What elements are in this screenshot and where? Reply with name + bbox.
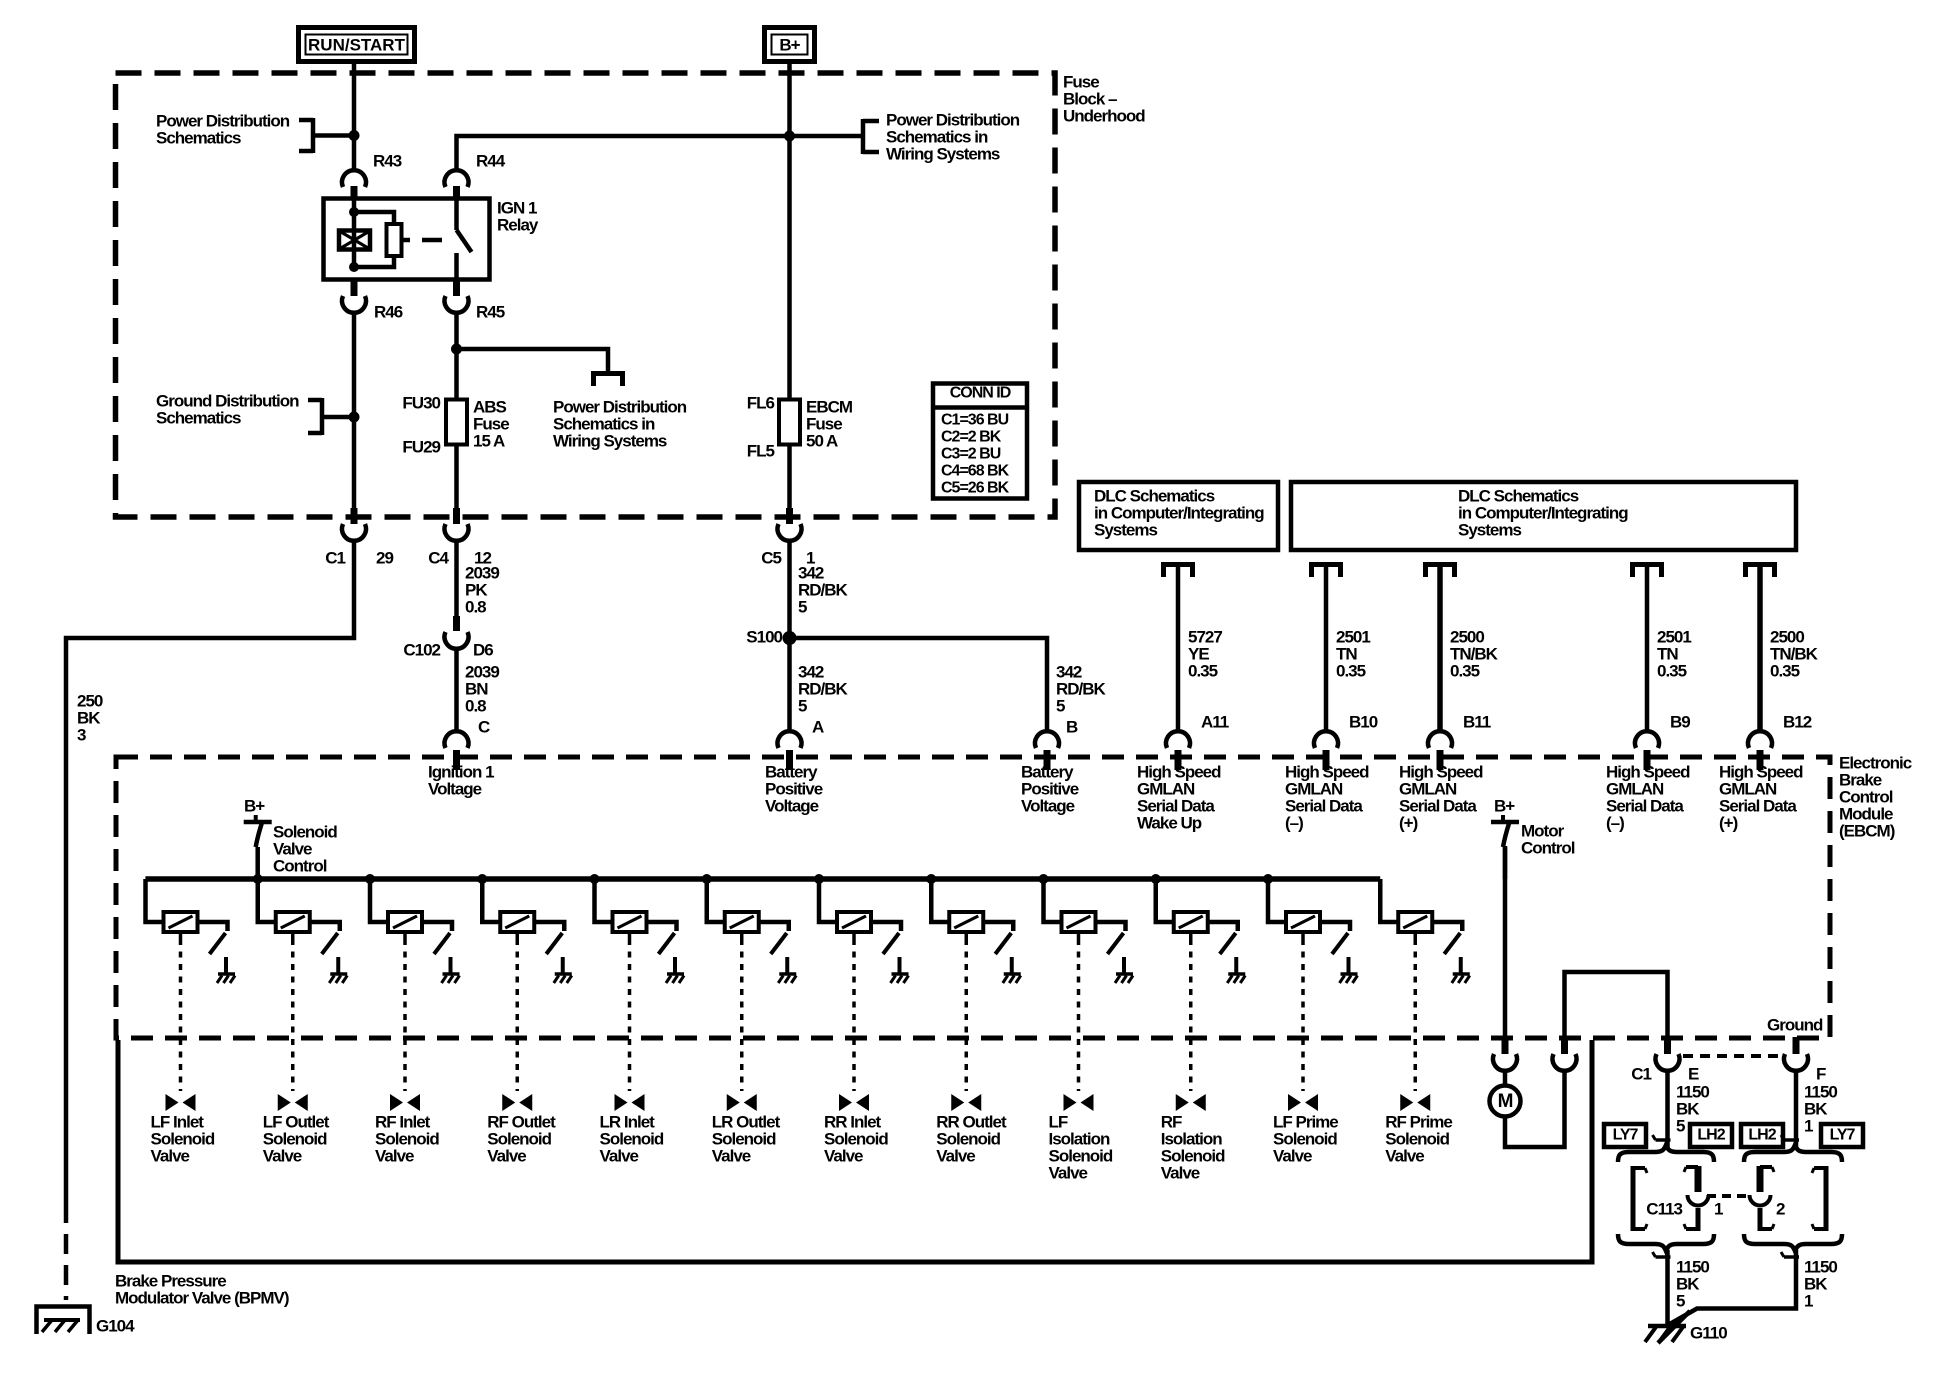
motor M — [1490, 1086, 1521, 1117]
node relay coil top tap — [349, 207, 359, 217]
wire coil to valve RF Outlet (dashed) — [516, 932, 520, 1091]
connector EBCM C1 pin E — [1631, 1037, 1699, 1083]
node bus junction LF Outlet — [253, 874, 263, 884]
wire switch to ground LF Isolation — [1122, 957, 1126, 973]
node junction R45 wire to goto bracket — [451, 344, 462, 355]
valve RR Inlet Solenoid Valve (symbol) — [839, 1094, 869, 1111]
terminal B+ (battery feed) — [765, 28, 815, 62]
wire motor M return loop — [1505, 1072, 1565, 1147]
svg-text:1: 1 — [1804, 1291, 1813, 1310]
connector R43 — [342, 151, 402, 200]
svg-text:0.35: 0.35 — [1770, 661, 1800, 680]
wire DLC to EBCM pin B10 — [1324, 566, 1329, 731]
wire DLC to EBCM pin B9 — [1645, 566, 1650, 731]
svg-text:3: 3 — [77, 725, 86, 744]
svg-text:0.8: 0.8 — [465, 597, 486, 616]
wire coil to switch LF Inlet — [198, 922, 228, 931]
svg-text:FU29: FU29 — [402, 437, 440, 456]
label High Speed GMLAN Serial Data (+) — [1719, 762, 1803, 832]
box engine code LH2 — [1690, 1124, 1732, 1147]
connector C113 pin 1 (pins) — [1633, 1166, 1709, 1231]
svg-text:RUN/START: RUN/START — [308, 35, 406, 54]
node bus junction LR Inlet — [590, 874, 600, 884]
wire bus drop to LR Inlet coil — [595, 879, 613, 922]
tick on G110 wire 1 — [1653, 1252, 1671, 1257]
pointer Power Distribution Schematics (bracket) — [299, 118, 354, 153]
connector EBCM ground pin F — [1784, 1037, 1826, 1083]
node bus junction RF Outlet — [477, 874, 487, 884]
node bus junction LF Prime — [1263, 874, 1273, 884]
ground RF Isolation driver — [1227, 974, 1245, 983]
wire B+ motor to connector — [1503, 846, 1508, 1038]
svg-text:(–): (–) — [1606, 813, 1624, 832]
wire FU29 to connector C4 — [454, 444, 459, 508]
wire FL5 to connector C5 — [787, 444, 792, 508]
wire C1 pin29 to left margin — [66, 542, 354, 1203]
wire RUN/START down to relay R43 — [352, 64, 357, 170]
svg-text:R44: R44 — [476, 151, 506, 170]
connector R46 — [342, 280, 403, 321]
svg-text:Valve: Valve — [487, 1146, 526, 1165]
wire coil to valve RR Inlet (dashed) — [852, 932, 856, 1091]
svg-text:M: M — [1498, 1091, 1513, 1112]
svg-text:5: 5 — [1676, 1116, 1685, 1135]
relay coil (box with X) — [339, 231, 370, 250]
wire coil to valve LF Outlet (dashed) — [291, 932, 295, 1091]
solenoid coil LR Outlet Solenoid Valve — [725, 912, 759, 932]
wire DLC to EBCM pin B11 — [1437, 566, 1443, 731]
box engine code LY7 — [1604, 1124, 1646, 1147]
battery feed B+ motor control — [1491, 796, 1575, 879]
wire coil to switch LF Isolation — [1096, 922, 1126, 931]
solenoid coil RF Outlet Solenoid Valve — [500, 912, 534, 932]
svg-text:1: 1 — [1804, 1116, 1813, 1135]
label Power Distribution Schematics in Wiring Systems — [553, 397, 687, 450]
svg-text:29: 29 — [376, 548, 393, 567]
wire coil to switch RF Prime — [1432, 922, 1462, 931]
wire switch to ground RR Outlet — [1010, 957, 1014, 973]
svg-text:5: 5 — [798, 597, 807, 616]
label LR Inlet Solenoid Valve — [600, 1112, 664, 1165]
svg-text:C3=2 BU: C3=2 BU — [941, 446, 1001, 463]
svg-text:Valve: Valve — [600, 1146, 639, 1165]
svg-text:D6: D6 — [473, 640, 493, 659]
wire bus drop to LF Isolation coil — [1044, 879, 1062, 922]
box DLC Schematics 2 — [1291, 482, 1796, 550]
svg-text:Valve: Valve — [1161, 1163, 1200, 1182]
svg-text:B: B — [1066, 717, 1078, 736]
brace top C113 group 1 — [1618, 1145, 1714, 1162]
ground G110 — [1645, 1311, 1727, 1343]
wire bus drop to RR Inlet coil — [819, 879, 837, 922]
label RR Outlet Solenoid Valve — [936, 1112, 1007, 1165]
label RF Outlet Solenoid Valve — [487, 1112, 556, 1165]
wire switch to ground RF Prime — [1459, 957, 1463, 973]
label LR Outlet Solenoid Valve — [712, 1112, 781, 1165]
label High Speed GMLAN Serial Data (+) — [1399, 762, 1483, 832]
connector EBCM pin B10 — [1314, 712, 1378, 770]
switch LF Outlet driver — [322, 933, 338, 954]
label C113 — [1646, 1199, 1682, 1218]
wire S100 to EBCM pin B — [790, 638, 1048, 731]
svg-text:F: F — [1816, 1064, 1826, 1083]
connector EBCM pin B — [1035, 717, 1078, 770]
wire bus drop to LF Outlet coil — [258, 879, 276, 922]
goto bracket DLC to pin B10 — [1309, 564, 1343, 577]
switch RF Isolation driver — [1220, 933, 1236, 954]
svg-text:Wiring Systems: Wiring Systems — [553, 431, 667, 450]
wire coil to valve LF Prime (dashed) — [1301, 932, 1305, 1091]
wire switch to ground LF Inlet — [224, 957, 228, 973]
wire R45 to fuse FU30 — [454, 313, 459, 400]
wire bus drop to LF Inlet coil — [146, 879, 164, 922]
node bus junction RR Outlet — [926, 874, 936, 884]
connector EBCM pin A11 — [1166, 712, 1229, 770]
svg-text:C1: C1 — [1631, 1064, 1651, 1083]
switch RF Inlet driver — [434, 933, 450, 954]
label High Speed GMLAN Serial Data (–) — [1606, 762, 1690, 832]
label Electronic Brake Control Module (EBCM) — [1839, 753, 1912, 840]
wire label 5727 YE 0.35 — [1188, 627, 1222, 680]
wire label 2039 PK 0.8 — [465, 563, 499, 616]
svg-text:Schematics: Schematics — [156, 128, 241, 147]
wire label 2500 TN/BK 0.35 — [1770, 627, 1819, 680]
wire switch to ground LF Prime — [1347, 957, 1351, 973]
label Fuse Block Underhood — [1063, 72, 1145, 125]
connector C4 pin 12 — [428, 508, 491, 567]
svg-text:(+): (+) — [1719, 813, 1738, 832]
svg-text:E: E — [1688, 1064, 1699, 1083]
svg-text:5: 5 — [1056, 696, 1065, 715]
wire bus drop to RF Prime coil — [1380, 879, 1398, 922]
node junction R46 wire to ground pointer — [349, 412, 360, 423]
valve RF Outlet Solenoid Valve (symbol) — [502, 1094, 532, 1111]
relay switch — [457, 198, 472, 280]
wire label 1150 BK 5 (G110) — [1676, 1257, 1709, 1310]
wire C113 group1 to G110 — [1665, 1250, 1670, 1326]
switch RR Outlet driver — [995, 933, 1011, 954]
wire coil to switch RR Inlet — [871, 922, 901, 931]
svg-text:(+): (+) — [1399, 813, 1418, 832]
box engine code LH2 — [1741, 1124, 1783, 1147]
svg-text:50 A: 50 A — [806, 431, 838, 450]
svg-text:0.35: 0.35 — [1450, 661, 1480, 680]
svg-text:LH2: LH2 — [1748, 1127, 1776, 1144]
wire bus drop to RF Inlet coil — [370, 879, 388, 922]
svg-text:Relay: Relay — [497, 215, 539, 234]
battery feed B+ solenoid valve control — [244, 796, 338, 879]
wire switch to ground LR Inlet — [673, 957, 677, 973]
tick on G110 wire 2 — [1781, 1252, 1799, 1257]
ground LF Inlet driver — [217, 974, 235, 983]
switch LF Isolation driver — [1108, 933, 1124, 954]
label LF Isolation Solenoid Valve — [1049, 1112, 1113, 1182]
svg-text:Valve: Valve — [375, 1146, 414, 1165]
pointer Power Distribution Schematics in Wiring Systems (text) — [886, 110, 1020, 163]
wire switch to ground RR Inlet — [898, 957, 902, 973]
label RF Inlet Solenoid Valve — [375, 1112, 439, 1165]
solenoid coil LF Outlet Solenoid Valve — [276, 912, 310, 932]
ground RR Inlet driver — [891, 974, 909, 983]
wire coil to switch RF Outlet — [534, 922, 564, 931]
valve RR Outlet Solenoid Valve (symbol) — [951, 1094, 981, 1111]
svg-text:Valve: Valve — [936, 1146, 975, 1165]
goto bracket DLC to pin B11 — [1423, 564, 1457, 577]
svg-text:B12: B12 — [1783, 712, 1812, 731]
wire coil to switch RR Outlet — [983, 922, 1013, 931]
wire switch to ground RF Inlet — [449, 957, 453, 973]
box DLC Schematics 1 — [1079, 482, 1278, 550]
wire R46 to connector C1 — [352, 313, 357, 508]
label Brake Pressure Modulator Valve (BPMV) — [115, 1271, 289, 1307]
svg-text:C5=26 BK: C5=26 BK — [941, 480, 1010, 497]
solenoid coil RF Isolation Solenoid Valve — [1174, 912, 1208, 932]
pointer Power Distribution Schematics in Wiring Systems (bracket) — [863, 119, 879, 154]
box engine code LY7 — [1821, 1124, 1863, 1147]
valve LF Isolation Solenoid Valve (symbol) — [1064, 1094, 1094, 1111]
connector EBCM pin B9 — [1635, 712, 1690, 770]
wire C4 to connector C102 — [454, 542, 459, 616]
wire coil to switch LR Outlet — [759, 922, 789, 931]
wire label 1150 BK 1 (G110) — [1804, 1257, 1837, 1310]
wire bus drop to LR Outlet coil — [707, 879, 725, 922]
switch LR Inlet driver — [659, 933, 675, 954]
wire label 2501 TN 0.35 — [1657, 627, 1691, 680]
svg-text:0.8: 0.8 — [465, 696, 486, 715]
pointer Power Distribution Schematics (text) — [156, 111, 290, 147]
svg-text:Wiring Systems: Wiring Systems — [886, 144, 1000, 163]
svg-text:Valve: Valve — [1385, 1146, 1424, 1165]
wire label 1150 BK 1 (pin F) — [1804, 1082, 1837, 1135]
BPMV box (solid) — [118, 1040, 1592, 1262]
relay actuator dashes — [402, 238, 442, 243]
wire label 2500 TN/BK 0.35 — [1450, 627, 1499, 680]
valve RF Prime Solenoid Valve (symbol) — [1400, 1094, 1430, 1111]
svg-text:Schematics: Schematics — [156, 408, 241, 427]
connector motor return at EBCM/BPMV boundary — [1553, 1037, 1577, 1071]
svg-text:Ground: Ground — [1767, 1015, 1823, 1034]
svg-text:5: 5 — [798, 696, 807, 715]
solenoid coil RR Inlet Solenoid Valve — [837, 912, 871, 932]
wire relay R44 up and right to pointer — [457, 136, 864, 170]
goto bracket DLC to pin A11 — [1161, 564, 1195, 577]
splice S100 — [746, 627, 796, 646]
svg-text:C: C — [478, 717, 490, 736]
solenoid coil RR Outlet Solenoid Valve — [949, 912, 983, 932]
svg-text:Systems: Systems — [1458, 520, 1521, 539]
ground G104 — [37, 1307, 136, 1336]
connector motor supply at EBCM/BPMV boundary — [1493, 1037, 1517, 1071]
ground LR Outlet driver — [778, 974, 796, 983]
label pin 1 — [1714, 1199, 1723, 1218]
svg-text:Voltage: Voltage — [765, 796, 819, 815]
connector EBCM pin B11 — [1428, 712, 1491, 770]
wire bus drop to RF Outlet coil — [482, 879, 500, 922]
goto bracket Power Distribution Schematics in Wiring Systems — [591, 373, 625, 386]
svg-text:C113: C113 — [1646, 1199, 1682, 1218]
solenoid coil RF Prime Solenoid Valve — [1398, 912, 1432, 932]
wire coil to valve RF Prime (dashed) — [1414, 932, 1418, 1091]
label RF Isolation Solenoid Valve — [1161, 1112, 1225, 1182]
wire label 2039 BN 0.8 — [465, 662, 499, 715]
svg-text:15 A: 15 A — [473, 431, 505, 450]
ground RF Prime driver — [1452, 974, 1470, 983]
wire coil to switch LR Inlet — [647, 922, 677, 931]
valve RF Isolation Solenoid Valve (symbol) — [1176, 1094, 1206, 1111]
label Ignition 1 Voltage — [428, 762, 494, 798]
svg-text:B+: B+ — [779, 35, 800, 54]
wire label 250 BK 3 — [77, 691, 103, 744]
svg-text:LY7: LY7 — [1613, 1127, 1639, 1144]
wire coil to valve LF Inlet (dashed) — [179, 932, 183, 1091]
valve LF Prime Solenoid Valve (symbol) — [1288, 1094, 1318, 1111]
node bus junction RR Inlet — [814, 874, 824, 884]
wire coil to valve LR Outlet (dashed) — [740, 932, 744, 1091]
node bus junction LR Outlet — [702, 874, 712, 884]
wire switch to ground RF Isolation — [1234, 957, 1238, 973]
wire pin F down to C113 — [1794, 1072, 1799, 1149]
svg-text:0.35: 0.35 — [1657, 661, 1687, 680]
svg-text:S100: S100 — [746, 627, 782, 646]
wire dashed drop to G104 — [64, 1203, 69, 1300]
svg-text:Valve: Valve — [151, 1146, 190, 1165]
svg-text:2: 2 — [1776, 1199, 1785, 1218]
connector EBCM pin B12 — [1748, 712, 1812, 770]
wire junction to goto bracket — [457, 349, 609, 371]
svg-text:Systems: Systems — [1094, 520, 1157, 539]
relay coil wire — [352, 198, 357, 267]
brace bottom C113 group 1 — [1618, 1234, 1714, 1251]
wire switch to ground LF Outlet — [336, 957, 340, 973]
svg-text:C102: C102 — [403, 640, 440, 659]
brace bottom C113 group 2 — [1744, 1234, 1842, 1251]
node bus junction LF Isolation — [1039, 874, 1049, 884]
wire label 342 RD/BK 5 (above S100) — [798, 563, 849, 616]
wire S100 to EBCM pin A — [787, 638, 792, 731]
valve LF Inlet Solenoid Valve (symbol) — [166, 1094, 196, 1111]
svg-text:C1=36 BU: C1=36 BU — [941, 412, 1009, 429]
svg-text:Valve: Valve — [263, 1146, 302, 1165]
label RF Prime Solenoid Valve — [1385, 1112, 1452, 1165]
switch LF Prime driver — [1332, 933, 1348, 954]
ground RF Outlet driver — [554, 974, 572, 983]
label High Speed GMLAN Serial Data (–) — [1285, 762, 1369, 832]
svg-text:Wake Up: Wake Up — [1137, 813, 1202, 832]
svg-text:C1: C1 — [325, 548, 345, 567]
wire coil to valve RF Inlet (dashed) — [403, 932, 407, 1091]
svg-text:Voltage: Voltage — [428, 779, 482, 798]
svg-text:FL5: FL5 — [747, 441, 775, 460]
relay suppression resistor loop — [354, 212, 402, 267]
svg-text:LY7: LY7 — [1830, 1127, 1856, 1144]
svg-text:B11: B11 — [1463, 712, 1491, 731]
svg-text:1: 1 — [1714, 1199, 1723, 1218]
svg-text:R46: R46 — [374, 302, 403, 321]
svg-text:G104: G104 — [96, 1316, 135, 1335]
connector C5 pin 1 — [761, 508, 815, 567]
connector C1 pin 29 — [325, 508, 393, 567]
svg-text:0.35: 0.35 — [1188, 661, 1218, 680]
svg-text:A: A — [812, 717, 824, 736]
solenoid coil LF Isolation Solenoid Valve — [1062, 912, 1096, 932]
switch LF Inlet driver — [210, 933, 226, 954]
solenoid coil LF Prime Solenoid Valve — [1286, 912, 1320, 932]
label Ground — [1767, 1015, 1823, 1034]
svg-text:Voltage: Voltage — [1021, 796, 1075, 815]
svg-text:Underhood: Underhood — [1063, 106, 1145, 125]
label RR Inlet Solenoid Valve — [824, 1112, 888, 1165]
fuse ABS 15A (FU30/FU29) — [402, 393, 509, 456]
svg-text:Control: Control — [273, 856, 327, 875]
svg-text:0.35: 0.35 — [1336, 661, 1366, 680]
link dashed C113 pins — [1707, 1194, 1751, 1198]
wire coil to switch LF Prime — [1320, 922, 1350, 931]
node bus junction RF Inlet — [365, 874, 375, 884]
label LF Inlet Solenoid Valve — [151, 1112, 215, 1165]
wire C102 to EBCM pin C — [454, 650, 459, 731]
svg-text:CONN ID: CONN ID — [950, 385, 1011, 402]
label Battery Positive Voltage (B) — [1021, 762, 1079, 815]
link dashed pins E-F — [1683, 1054, 1782, 1058]
wire label 342 RD/BK 5 (pin B) — [1056, 662, 1107, 715]
brace top C113 group 2 — [1744, 1145, 1842, 1162]
pointer Ground Distribution Schematics (text) — [156, 391, 299, 427]
ground LF Prime driver — [1340, 974, 1358, 983]
connector C102 pin D6 — [403, 616, 493, 659]
label LF Prime Solenoid Valve — [1273, 1112, 1338, 1165]
switch RF Outlet driver — [546, 933, 562, 954]
wire label 2501 TN 0.35 — [1336, 627, 1370, 680]
node relay coil bottom tap — [349, 262, 359, 272]
connector C113 pin 2 (pins) — [1750, 1166, 1827, 1231]
svg-text:B10: B10 — [1349, 712, 1378, 731]
wire label 342 RD/BK 5 (below S100) — [798, 662, 849, 715]
svg-text:Valve: Valve — [824, 1146, 863, 1165]
svg-text:FU30: FU30 — [402, 393, 440, 412]
relay IGN 1 (box) — [324, 198, 539, 279]
table CONN ID — [933, 384, 1027, 499]
goto bracket DLC to pin B9 — [1630, 564, 1664, 577]
wire C113 group2 to G110 — [1668, 1250, 1796, 1325]
svg-text:B+: B+ — [1494, 796, 1515, 815]
wire coil to valve RR Outlet (dashed) — [965, 932, 969, 1091]
label LF Outlet Solenoid Valve — [263, 1112, 330, 1165]
svg-text:(–): (–) — [1285, 813, 1303, 832]
wire coil to switch LF Outlet — [310, 922, 340, 931]
svg-text:5: 5 — [1676, 1291, 1685, 1310]
svg-text:G110: G110 — [1690, 1323, 1727, 1342]
wire DLC to EBCM pin B12 — [1757, 566, 1763, 731]
wire coil to switch RF Isolation — [1208, 922, 1238, 931]
svg-text:R45: R45 — [476, 302, 505, 321]
svg-text:LH2: LH2 — [1697, 1127, 1725, 1144]
connector R45 — [445, 280, 505, 321]
bus solenoid valve control — [145, 876, 1380, 882]
ground LF Outlet driver — [329, 974, 347, 983]
wire coil to valve LF Isolation (dashed) — [1077, 932, 1081, 1091]
svg-text:C5: C5 — [761, 548, 781, 567]
svg-text:B9: B9 — [1670, 712, 1690, 731]
svg-text:Modulator Valve (BPMV): Modulator Valve (BPMV) — [115, 1288, 289, 1307]
wire label 1150 BK 5 (pin E) — [1676, 1082, 1709, 1135]
svg-text:C4=68 BK: C4=68 BK — [941, 463, 1010, 480]
label High Speed GMLAN Serial Data Wake Up — [1137, 762, 1221, 832]
svg-text:R43: R43 — [373, 151, 402, 170]
wire bus drop to RF Isolation coil — [1156, 879, 1174, 922]
solenoid coil LF Inlet Solenoid Valve — [164, 912, 198, 932]
tick on wire F — [1781, 1135, 1799, 1140]
wire pin E down to C113 — [1665, 1072, 1670, 1149]
